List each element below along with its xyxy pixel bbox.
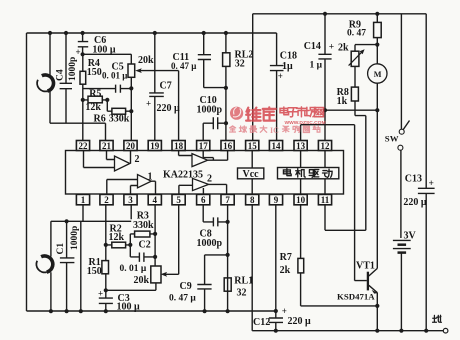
svg-text:0. 47 μ: 0. 47 μ [171,61,196,71]
svg-text:1000p: 1000p [197,238,223,249]
svg-text:R6: R6 [94,114,106,125]
svg-text:WWW.DZSC.COM: WWW.DZSC.COM [285,120,326,126]
svg-text:20k: 20k [134,275,150,286]
svg-text:8: 8 [250,195,255,205]
svg-text:KSD471A: KSD471A [337,292,375,302]
svg-text:150: 150 [87,67,102,78]
svg-text:C12: C12 [253,317,270,328]
svg-text:+: + [146,99,151,109]
svg-text:C4: C4 [56,69,66,81]
svg-text:32: 32 [235,59,245,70]
svg-text:100 μ: 100 μ [117,302,141,313]
svg-text:2: 2 [135,154,140,165]
svg-text:C2: C2 [139,240,151,251]
svg-text:10: 10 [296,195,306,205]
svg-text:220 μ: 220 μ [157,103,181,114]
svg-text:C9: C9 [180,281,192,292]
svg-text:12k: 12k [109,232,125,243]
svg-text:19: 19 [150,141,160,151]
svg-text:C13: C13 [405,174,422,185]
svg-text:KA22135: KA22135 [163,170,203,181]
svg-text:330k: 330k [109,114,130,125]
svg-text:4: 4 [153,195,158,205]
svg-text:12k: 12k [85,102,101,113]
svg-text:RL1: RL1 [234,276,253,287]
svg-text:IC: IC [270,126,279,135]
svg-text:18: 18 [174,141,184,151]
svg-text:Vcc: Vcc [243,169,260,180]
svg-text:6: 6 [201,195,206,205]
svg-text:0. 01 μ: 0. 01 μ [120,264,147,274]
svg-text:C1: C1 [56,243,66,255]
svg-text:SW: SW [385,133,399,143]
svg-text:1000p: 1000p [197,105,223,116]
svg-text:2: 2 [104,195,109,205]
svg-text:+: + [98,289,103,299]
svg-text:22: 22 [79,141,89,151]
svg-text:12: 12 [321,141,331,151]
svg-text:1000p: 1000p [68,57,78,81]
svg-text:2k: 2k [338,43,349,54]
svg-text:330k: 330k [133,220,154,231]
svg-text:21: 21 [102,141,112,151]
svg-text:1: 1 [81,195,86,205]
svg-text:0. 47 μ: 0. 47 μ [169,294,196,304]
svg-text:C18: C18 [280,51,297,62]
svg-text:14: 14 [272,141,282,151]
svg-text:20k: 20k [138,55,154,66]
svg-text:150: 150 [87,266,102,277]
svg-text:2: 2 [207,174,212,185]
svg-text:220 μ: 220 μ [403,197,427,208]
svg-text:R5: R5 [89,89,101,100]
svg-text:15: 15 [248,141,258,151]
svg-text:+: + [329,43,334,53]
svg-text:+: + [278,71,283,81]
svg-text:9: 9 [274,195,279,205]
svg-text:0. 01 μ: 0. 01 μ [102,71,127,81]
svg-text:20: 20 [126,141,136,151]
svg-text:1 μ: 1 μ [310,61,323,71]
svg-text:1μ: 1μ [282,61,293,72]
svg-text:11: 11 [321,195,330,205]
svg-text:C7: C7 [160,81,172,92]
svg-text:13: 13 [296,141,306,151]
svg-text:16: 16 [223,141,233,151]
svg-text:+: + [282,306,287,316]
svg-text:1000p: 1000p [70,226,80,250]
svg-text:M: M [374,70,382,79]
svg-text:32: 32 [237,288,247,299]
svg-text:2k: 2k [280,265,291,276]
svg-text:17: 17 [199,141,209,151]
svg-text:+: + [76,47,81,57]
svg-text:3: 3 [128,195,133,205]
svg-text:0. 47: 0. 47 [347,29,366,39]
svg-text:220 μ: 220 μ [288,316,312,327]
svg-text:VT1: VT1 [356,261,375,272]
svg-text:1k: 1k [337,96,348,107]
svg-text:5: 5 [176,195,181,205]
svg-text:C14: C14 [304,41,321,52]
svg-text:R7: R7 [280,252,292,263]
svg-text:+: + [429,179,434,189]
svg-text:100 μ: 100 μ [92,45,116,56]
svg-text:3V: 3V [404,231,417,242]
svg-text:7: 7 [225,195,230,205]
svg-text:1: 1 [148,172,153,183]
